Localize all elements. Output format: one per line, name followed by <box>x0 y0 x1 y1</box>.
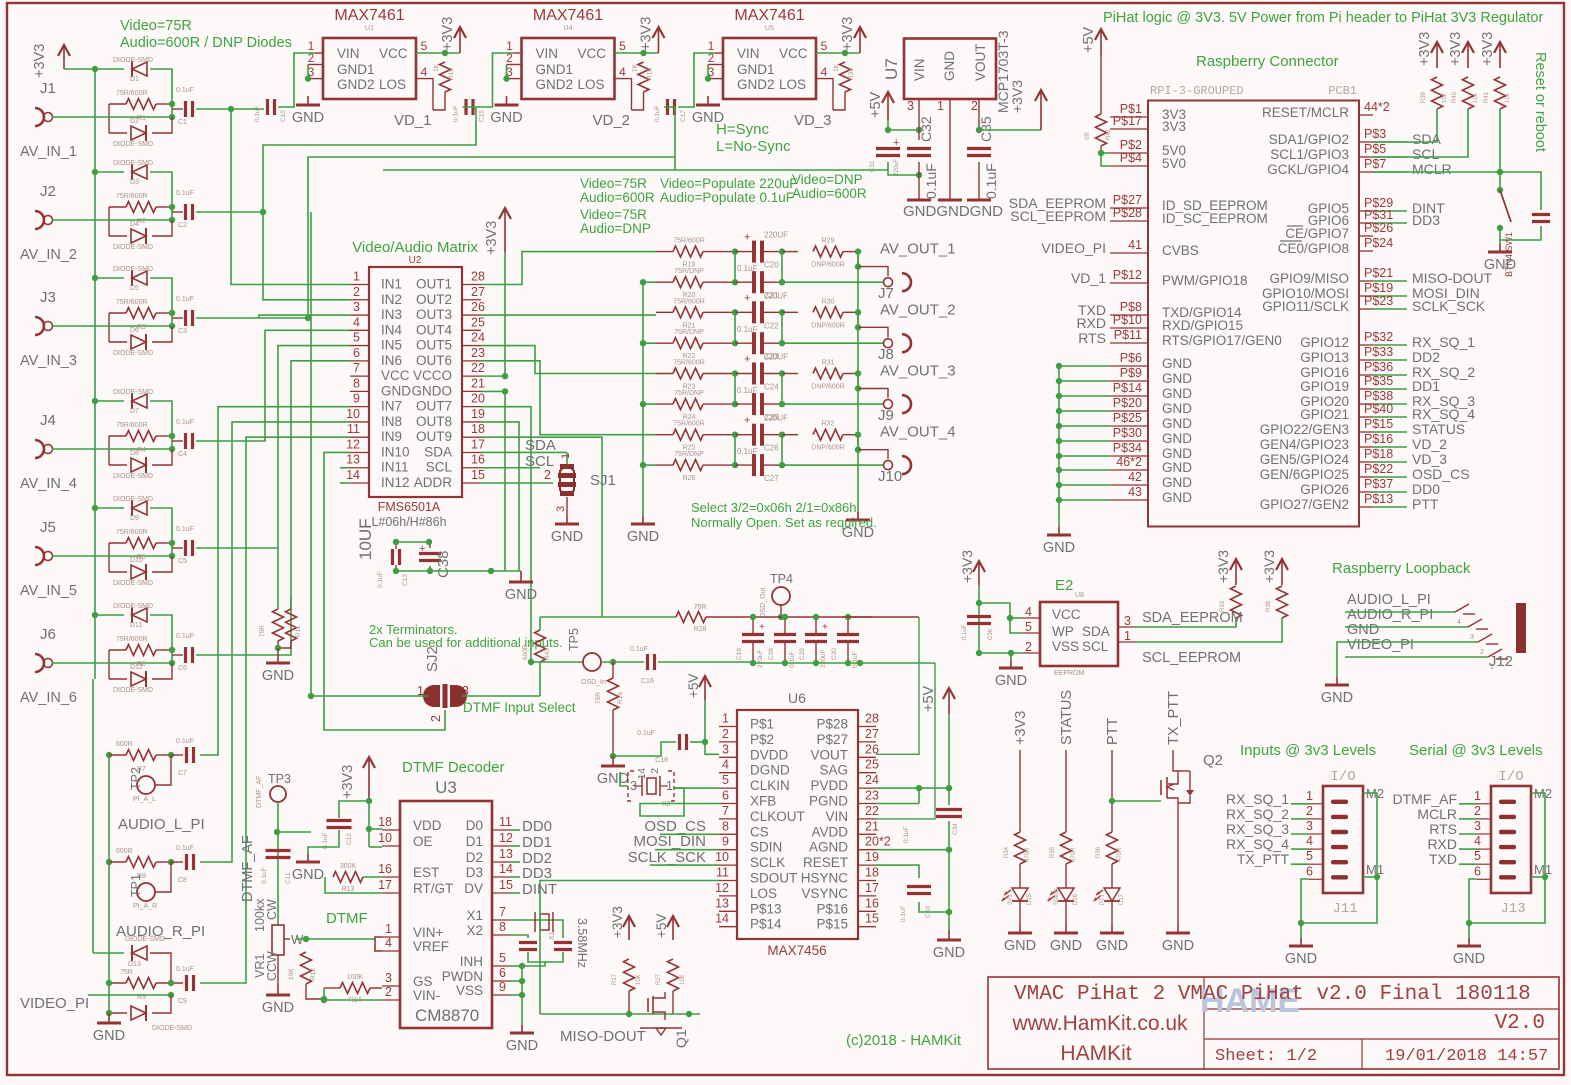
svg-text:17: 17 <box>865 881 879 895</box>
svg-text:GPIO22/GEN3: GPIO22/GEN3 <box>1260 422 1349 437</box>
svg-text:P$25: P$25 <box>1113 411 1142 425</box>
svg-text:42: 42 <box>1128 470 1142 484</box>
svg-text:75R: 75R <box>120 969 133 976</box>
svg-text:75R/600R: 75R/600R <box>673 238 705 245</box>
svg-text:VMAC PiHat 2 VMAC PiHat v2.0 F: VMAC PiHat 2 VMAC PiHat v2.0 Final 18011… <box>1014 983 1531 1006</box>
svg-text:DIODE-SMD: DIODE-SMD <box>113 141 153 148</box>
svg-text:VCC: VCC <box>381 368 410 383</box>
svg-text:26: 26 <box>471 300 485 314</box>
svg-text:X2: X2 <box>466 923 483 938</box>
svg-text:IN4: IN4 <box>381 322 403 337</box>
svg-text:AGND: AGND <box>809 840 848 855</box>
svg-text:3: 3 <box>1470 634 1474 641</box>
svg-text:DNP/600R: DNP/600R <box>811 322 844 329</box>
svg-text:VIN: VIN <box>825 809 848 824</box>
svg-text:220UF: 220UF <box>764 414 788 423</box>
svg-text:220uF: 220uF <box>757 650 764 668</box>
svg-text:0.1uF: 0.1uF <box>254 105 261 122</box>
svg-text:13: 13 <box>346 453 360 467</box>
svg-text:INH: INH <box>460 954 483 969</box>
svg-text:GND: GND <box>1162 386 1192 401</box>
svg-text:U7: U7 <box>882 58 901 80</box>
svg-text:0.1uF: 0.1uF <box>176 738 194 745</box>
svg-text:C27: C27 <box>764 474 779 483</box>
svg-text:P$14: P$14 <box>750 917 782 932</box>
svg-text:U6: U6 <box>788 690 806 706</box>
svg-text:C31: C31 <box>870 160 876 172</box>
svg-text:7: 7 <box>499 905 506 919</box>
svg-text:XFB: XFB <box>750 794 776 809</box>
svg-text:43: 43 <box>1128 485 1142 499</box>
svg-text:PTT: PTT <box>1412 496 1439 512</box>
svg-text:4: 4 <box>385 936 392 950</box>
svg-text:SCLK_SCK: SCLK_SCK <box>1412 298 1486 314</box>
svg-text:9: 9 <box>722 835 729 849</box>
svg-text:11: 11 <box>716 866 729 880</box>
svg-text:+5V: +5V <box>868 91 884 118</box>
svg-text:PWDN: PWDN <box>442 969 483 984</box>
svg-text:1: 1 <box>353 270 360 284</box>
svg-text:19: 19 <box>865 850 879 864</box>
svg-text:U4: U4 <box>564 25 573 32</box>
svg-text:1K: 1K <box>833 63 840 72</box>
svg-text:C3: C3 <box>178 328 187 335</box>
svg-text:VIN: VIN <box>536 46 559 61</box>
svg-text:R27: R27 <box>656 973 662 985</box>
svg-text:Inputs @ 3v3 Levels: Inputs @ 3v3 Levels <box>1240 742 1376 759</box>
svg-text:+3V3: +3V3 <box>639 17 655 51</box>
svg-text:X1: X1 <box>549 931 556 940</box>
svg-text:17: 17 <box>378 878 392 892</box>
svg-text:0.1uF: 0.1uF <box>923 163 939 199</box>
svg-text:R38: R38 <box>1266 600 1272 612</box>
svg-text:DIODE-SMD: DIODE-SMD <box>152 1025 192 1032</box>
svg-text:1: 1 <box>385 922 392 936</box>
svg-text:OUT4: OUT4 <box>416 322 452 337</box>
svg-text:+: + <box>744 415 750 427</box>
svg-text:GND: GND <box>551 529 583 545</box>
svg-text:20*2: 20*2 <box>865 835 891 849</box>
svg-text:GND: GND <box>506 1038 538 1054</box>
svg-text:GND: GND <box>1050 938 1082 954</box>
svg-text:6: 6 <box>1306 864 1313 878</box>
svg-text:DIODE-SMD: DIODE-SMD <box>113 603 153 610</box>
svg-text:Audio=Populate 0.1uF: Audio=Populate 0.1uF <box>660 190 794 205</box>
svg-text:11: 11 <box>347 422 360 436</box>
svg-text:P$15: P$15 <box>1364 417 1393 431</box>
svg-text:+3V3: +3V3 <box>340 765 356 799</box>
svg-text:SCL_EEPROM: SCL_EEPROM <box>1142 650 1241 666</box>
svg-text:220uF: 220uF <box>820 650 827 668</box>
svg-text:VSS: VSS <box>1052 639 1079 654</box>
svg-text:Audio=600R: Audio=600R <box>580 190 655 205</box>
svg-text:SDA: SDA <box>525 437 556 454</box>
svg-text:OUT6: OUT6 <box>416 353 452 368</box>
svg-text:WP: WP <box>1052 624 1074 639</box>
svg-text:0R: 0R <box>1085 132 1091 140</box>
svg-text:46*2: 46*2 <box>1116 455 1142 469</box>
svg-text:VIN: VIN <box>737 46 760 61</box>
svg-text:P$26: P$26 <box>1364 221 1393 235</box>
svg-text:P$21: P$21 <box>1364 266 1393 280</box>
svg-text:HAMKit: HAMKit <box>1060 1042 1131 1065</box>
svg-text:+3V3: +3V3 <box>1417 32 1433 66</box>
svg-text:1: 1 <box>560 453 572 459</box>
svg-text:GPIO21: GPIO21 <box>1300 407 1349 422</box>
svg-text:Audio=600R / DNP Diodes: Audio=600R / DNP Diodes <box>120 35 292 51</box>
svg-text:0.1uF: 0.1uF <box>962 624 968 640</box>
svg-text:OUT3: OUT3 <box>416 307 452 322</box>
svg-text:75R/DNP: 75R/DNP <box>674 329 704 336</box>
svg-text:0.1uF: 0.1uF <box>453 105 460 122</box>
svg-text:Raspberry Connector: Raspberry Connector <box>1196 53 1339 70</box>
svg-text:MISO-DOUT: MISO-DOUT <box>1412 270 1493 286</box>
svg-text:VIN: VIN <box>912 58 927 81</box>
svg-text:IN8: IN8 <box>381 414 402 429</box>
svg-text:J6: J6 <box>40 626 56 643</box>
svg-text:3: 3 <box>1124 614 1131 628</box>
svg-text:C8: C8 <box>178 877 187 884</box>
svg-text:VIN: VIN <box>337 46 360 61</box>
svg-text:C16: C16 <box>641 678 654 685</box>
svg-text:GND1: GND1 <box>536 62 574 77</box>
svg-text:DD0: DD0 <box>522 818 552 835</box>
svg-text:VIDEO_PI: VIDEO_PI <box>1347 637 1414 653</box>
svg-text:GNDO: GNDO <box>412 383 453 398</box>
svg-text:10K: 10K <box>636 974 642 985</box>
svg-text:5: 5 <box>1025 620 1032 634</box>
svg-text:10K: 10K <box>680 974 686 985</box>
svg-text:GPIO16: GPIO16 <box>1300 365 1349 380</box>
svg-text:VIN+: VIN+ <box>413 925 444 940</box>
svg-text:L=No-Sync: L=No-Sync <box>716 138 791 155</box>
svg-text:12: 12 <box>715 881 729 895</box>
svg-text:DIODE-SMD: DIODE-SMD <box>113 473 153 480</box>
svg-text:3: 3 <box>385 971 392 985</box>
svg-text:CLKIN: CLKIN <box>750 778 790 793</box>
svg-text:RXD/GPIO15: RXD/GPIO15 <box>1162 318 1243 333</box>
svg-text:TX_PTT: TX_PTT <box>1166 691 1182 745</box>
svg-text:GND: GND <box>1162 475 1192 490</box>
svg-text:P$20: P$20 <box>1113 396 1142 410</box>
svg-text:GND: GND <box>1162 356 1192 371</box>
svg-text:RXD: RXD <box>1427 836 1457 852</box>
svg-text:GPIO9/MISO: GPIO9/MISO <box>1269 271 1349 286</box>
svg-text:2: 2 <box>385 985 392 999</box>
svg-text:GND: GND <box>1162 401 1192 416</box>
svg-text:Select 3/2=0x06h 2/1=0x86h: Select 3/2=0x06h 2/1=0x86h <box>691 500 857 515</box>
svg-text:C12: C12 <box>346 833 353 845</box>
svg-text:0.1uF: 0.1uF <box>789 651 796 668</box>
svg-text:0.1uF: 0.1uF <box>737 325 758 334</box>
svg-text:P$1: P$1 <box>750 717 774 732</box>
svg-text:VSS: VSS <box>456 983 483 998</box>
svg-text:AV_IN_5: AV_IN_5 <box>20 583 77 599</box>
svg-text:GND: GND <box>942 51 957 81</box>
svg-text:GPIO27/GEN2: GPIO27/GEN2 <box>1260 497 1349 512</box>
svg-text:75R/600R: 75R/600R <box>116 193 148 200</box>
svg-text:R28: R28 <box>694 626 707 633</box>
svg-text:SDA_EEPROM: SDA_EEPROM <box>1142 610 1243 626</box>
svg-text:MAX7461: MAX7461 <box>334 7 404 24</box>
svg-text:AV_IN_2: AV_IN_2 <box>20 247 77 263</box>
svg-text:1K: 1K <box>433 63 440 72</box>
svg-text:P$27: P$27 <box>1113 193 1142 207</box>
svg-text:DTMF: DTMF <box>326 910 368 927</box>
svg-text:P$31: P$31 <box>1364 208 1393 222</box>
svg-text:220UF: 220UF <box>764 353 788 362</box>
svg-text:P$13: P$13 <box>1364 492 1393 506</box>
svg-text:GND: GND <box>1162 460 1192 475</box>
svg-text:PiHat logic @ 3V3. 5V Power f: PiHat logic @ 3V3. 5V Power from Pi head… <box>1103 10 1543 26</box>
svg-text:+3V3: +3V3 <box>1013 711 1029 745</box>
svg-text:4: 4 <box>1457 619 1461 626</box>
svg-text:15: 15 <box>499 878 513 892</box>
svg-text:C38: C38 <box>435 550 452 578</box>
svg-text:20: 20 <box>471 392 485 406</box>
svg-text:+: + <box>759 622 765 633</box>
svg-text:P$7: P$7 <box>1364 157 1386 171</box>
svg-text:12: 12 <box>346 437 360 451</box>
svg-text:AUDIO_L_PI: AUDIO_L_PI <box>118 816 205 833</box>
svg-text:+3V3: +3V3 <box>1009 80 1025 113</box>
svg-text:U2: U2 <box>409 255 422 266</box>
svg-text:P$3: P$3 <box>1364 127 1386 141</box>
svg-text:TX_PTT: TX_PTT <box>1237 851 1290 867</box>
svg-text:VD_3: VD_3 <box>1412 451 1447 467</box>
svg-text:RT/GT: RT/GT <box>413 881 453 896</box>
svg-text:P$15: P$15 <box>816 917 848 932</box>
svg-text:P$2: P$2 <box>1120 138 1142 152</box>
svg-text:0.1uF: 0.1uF <box>176 87 194 94</box>
svg-text:0.1uF: 0.1uF <box>737 264 758 273</box>
svg-text:Video/Audio Matrix: Video/Audio Matrix <box>352 239 478 256</box>
svg-text:EEPROM: EEPROM <box>1054 670 1085 677</box>
svg-text:+3V3: +3V3 <box>484 221 500 255</box>
svg-text:DTMF_AF: DTMF_AF <box>256 776 263 808</box>
svg-text:+3V3: +3V3 <box>1448 32 1464 66</box>
svg-text:+5V: +5V <box>686 674 701 698</box>
svg-text:J1: J1 <box>40 80 56 97</box>
svg-text:0.1uF: 0.1uF <box>900 905 907 922</box>
svg-text:24: 24 <box>865 773 879 787</box>
svg-text:5: 5 <box>1474 849 1481 863</box>
svg-text:E2: E2 <box>1055 577 1073 594</box>
svg-text:RTS/GPIO17/GEN0: RTS/GPIO17/GEN0 <box>1162 333 1282 348</box>
svg-text:22: 22 <box>865 804 879 818</box>
svg-text:RTS: RTS <box>1078 330 1106 346</box>
svg-text:C20: C20 <box>764 261 779 270</box>
svg-text:0.1uF: 0.1uF <box>176 526 194 533</box>
svg-text:P$4: P$4 <box>1120 151 1142 165</box>
svg-text:C33: C33 <box>925 906 932 918</box>
svg-text:75R/600R: 75R/600R <box>116 529 148 536</box>
svg-text:DD0: DD0 <box>1412 481 1440 497</box>
svg-text:10k: 10k <box>1505 92 1511 103</box>
svg-text:C19: C19 <box>736 648 743 660</box>
svg-text:R31: R31 <box>822 360 835 367</box>
svg-text:OUT2: OUT2 <box>416 292 452 307</box>
svg-text:4: 4 <box>1025 605 1032 619</box>
svg-text:X2: X2 <box>662 801 671 808</box>
svg-text:P$33: P$33 <box>1364 345 1393 359</box>
svg-text:X1: X1 <box>466 908 483 923</box>
svg-text:D0: D0 <box>466 818 483 833</box>
svg-text:P$10: P$10 <box>1113 313 1142 327</box>
svg-text:2: 2 <box>650 768 661 774</box>
svg-text:R12: R12 <box>310 968 317 980</box>
svg-text:1: 1 <box>722 712 729 726</box>
svg-text:OSD_CS: OSD_CS <box>1412 466 1470 482</box>
svg-text:SJ2: SJ2 <box>424 646 441 672</box>
svg-text:D12: D12 <box>130 664 143 671</box>
svg-text:P$24: P$24 <box>1364 236 1393 250</box>
svg-text:GPIO12: GPIO12 <box>1300 335 1349 350</box>
svg-text:75R/600R: 75R/600R <box>116 299 148 306</box>
svg-text:IN5: IN5 <box>381 338 402 353</box>
svg-text:SAG: SAG <box>819 763 848 778</box>
svg-text:220UF: 220UF <box>764 231 788 240</box>
svg-text:6: 6 <box>499 966 506 980</box>
svg-text:100K: 100K <box>347 974 364 981</box>
svg-text:+5V: +5V <box>654 914 669 938</box>
svg-text:AUDIO_R_PI: AUDIO_R_PI <box>1347 607 1433 623</box>
svg-text:OE: OE <box>413 834 433 849</box>
svg-text:GND: GND <box>1096 938 1128 954</box>
svg-text:SDA: SDA <box>424 444 452 459</box>
svg-text:Q2: Q2 <box>1203 752 1223 769</box>
svg-text:P$5: P$5 <box>1364 142 1386 156</box>
svg-text:DGND: DGND <box>750 763 790 778</box>
svg-text:SDIN: SDIN <box>750 840 782 855</box>
svg-text:D1: D1 <box>130 76 139 83</box>
svg-text:Normally Open. Set as require: Normally Open. Set as required. <box>691 515 877 530</box>
svg-text:P$22: P$22 <box>1364 462 1393 476</box>
svg-text:www.HamKit.co.uk: www.HamKit.co.uk <box>1011 1012 1188 1035</box>
svg-text:+3V3: +3V3 <box>440 17 456 51</box>
svg-text:DIODE-SMD: DIODE-SMD <box>113 244 153 251</box>
svg-text:3.58MHz: 3.58MHz <box>575 918 589 968</box>
svg-text:0.1uF: 0.1uF <box>983 163 999 199</box>
svg-text:D7: D7 <box>130 408 139 415</box>
svg-text:0.1uF: 0.1uF <box>903 826 910 843</box>
svg-text:P$35: P$35 <box>1364 374 1393 388</box>
svg-text:RXD: RXD <box>1076 315 1106 331</box>
svg-text:3V3: 3V3 <box>1008 894 1014 905</box>
svg-text:AV_OUT_4: AV_OUT_4 <box>880 424 956 441</box>
svg-text:C15: C15 <box>479 110 486 122</box>
svg-text:CS: CS <box>750 824 769 839</box>
svg-text:13: 13 <box>499 847 513 861</box>
svg-text:2: 2 <box>1025 640 1032 654</box>
svg-text:GND: GND <box>262 668 294 684</box>
svg-text:LOS: LOS <box>750 886 777 901</box>
svg-text:75R/600R: 75R/600R <box>116 422 148 429</box>
svg-text:21: 21 <box>865 819 879 833</box>
svg-text:AUDIO_L_PI: AUDIO_L_PI <box>1347 592 1431 608</box>
svg-text:RESET: RESET <box>803 855 848 870</box>
svg-text:5: 5 <box>821 39 828 53</box>
svg-text:3: 3 <box>555 506 567 512</box>
svg-text:15: 15 <box>865 912 879 926</box>
svg-text:TP3: TP3 <box>268 772 291 786</box>
svg-text:Q1: Q1 <box>673 1029 689 1048</box>
svg-text:41: 41 <box>1128 238 1142 252</box>
svg-text:DTMF Decoder: DTMF Decoder <box>402 759 505 776</box>
svg-text:LOS: LOS <box>779 77 806 92</box>
svg-text:R11: R11 <box>295 625 302 637</box>
svg-text:0.1uF: 0.1uF <box>261 867 268 884</box>
svg-text:25: 25 <box>865 758 879 772</box>
svg-text:2: 2 <box>429 715 443 722</box>
svg-text:GND: GND <box>1162 431 1192 446</box>
svg-text:VD_3: VD_3 <box>794 112 832 129</box>
svg-text:P$38: P$38 <box>1364 389 1393 403</box>
svg-text:P$37: P$37 <box>1364 477 1393 491</box>
svg-text:MCLR: MCLR <box>1417 806 1457 822</box>
svg-text:8: 8 <box>353 376 360 390</box>
svg-text:DIODE-SMD: DIODE-SMD <box>113 350 153 357</box>
svg-text:22: 22 <box>471 361 485 375</box>
svg-text:DNP/600R: DNP/600R <box>811 445 844 452</box>
svg-text:+: + <box>744 232 750 244</box>
svg-text:0.1uF: 0.1uF <box>852 651 859 668</box>
svg-text:D3: D3 <box>466 865 483 880</box>
svg-text:P$16: P$16 <box>816 901 848 916</box>
svg-text:R13: R13 <box>342 886 355 893</box>
svg-text:STATUS: STATUS <box>1412 421 1465 437</box>
svg-text:2: 2 <box>971 99 978 113</box>
svg-text:+3V3: +3V3 <box>840 17 856 51</box>
svg-text:R41: R41 <box>1484 91 1490 103</box>
svg-text:75R/600R: 75R/600R <box>673 421 705 428</box>
svg-text:MAX7456: MAX7456 <box>767 943 826 958</box>
svg-text:TP4: TP4 <box>770 572 793 586</box>
svg-text:STATUS: STATUS <box>1059 690 1075 745</box>
svg-text:24: 24 <box>471 331 485 345</box>
svg-text:R32: R32 <box>822 421 835 428</box>
svg-text:75R/DNP: 75R/DNP <box>674 268 704 275</box>
svg-text:0.1uF: 0.1uF <box>737 386 758 395</box>
svg-text:600R: 600R <box>116 848 133 855</box>
svg-text:44*2: 44*2 <box>1364 100 1390 114</box>
svg-text:DNP/600R: DNP/600R <box>811 262 844 269</box>
svg-text:10: 10 <box>346 407 360 421</box>
svg-text:AV_IN_1: AV_IN_1 <box>20 144 77 160</box>
svg-text:GPIO26: GPIO26 <box>1300 482 1349 497</box>
svg-text:P$28: P$28 <box>1113 206 1142 220</box>
svg-text:J12: J12 <box>1489 653 1513 670</box>
svg-text:PCB1: PCB1 <box>1328 84 1357 98</box>
svg-text:VD_1: VD_1 <box>394 112 432 129</box>
svg-text:1: 1 <box>1124 629 1131 643</box>
svg-text:6: 6 <box>722 789 729 803</box>
svg-text:GEN4/GPIO23: GEN4/GPIO23 <box>1260 437 1349 452</box>
svg-text:28: 28 <box>471 270 485 284</box>
svg-text:RTS: RTS <box>1429 821 1457 837</box>
svg-text:28: 28 <box>865 712 879 726</box>
svg-text:0.1uF: 0.1uF <box>630 646 648 653</box>
svg-text:75R/600R: 75R/600R <box>116 636 148 643</box>
svg-text:GND2: GND2 <box>737 77 775 92</box>
svg-text:16: 16 <box>471 453 485 467</box>
svg-text:AV_IN_4: AV_IN_4 <box>20 476 77 492</box>
svg-text:75R/DNP: 75R/DNP <box>674 390 704 397</box>
svg-text:+: + <box>419 543 425 555</box>
svg-text:I/O: I/O <box>1498 769 1523 785</box>
svg-text:(c)2018 - HAMKit: (c)2018 - HAMKit <box>846 1032 962 1049</box>
svg-text:GND: GND <box>1321 690 1353 706</box>
